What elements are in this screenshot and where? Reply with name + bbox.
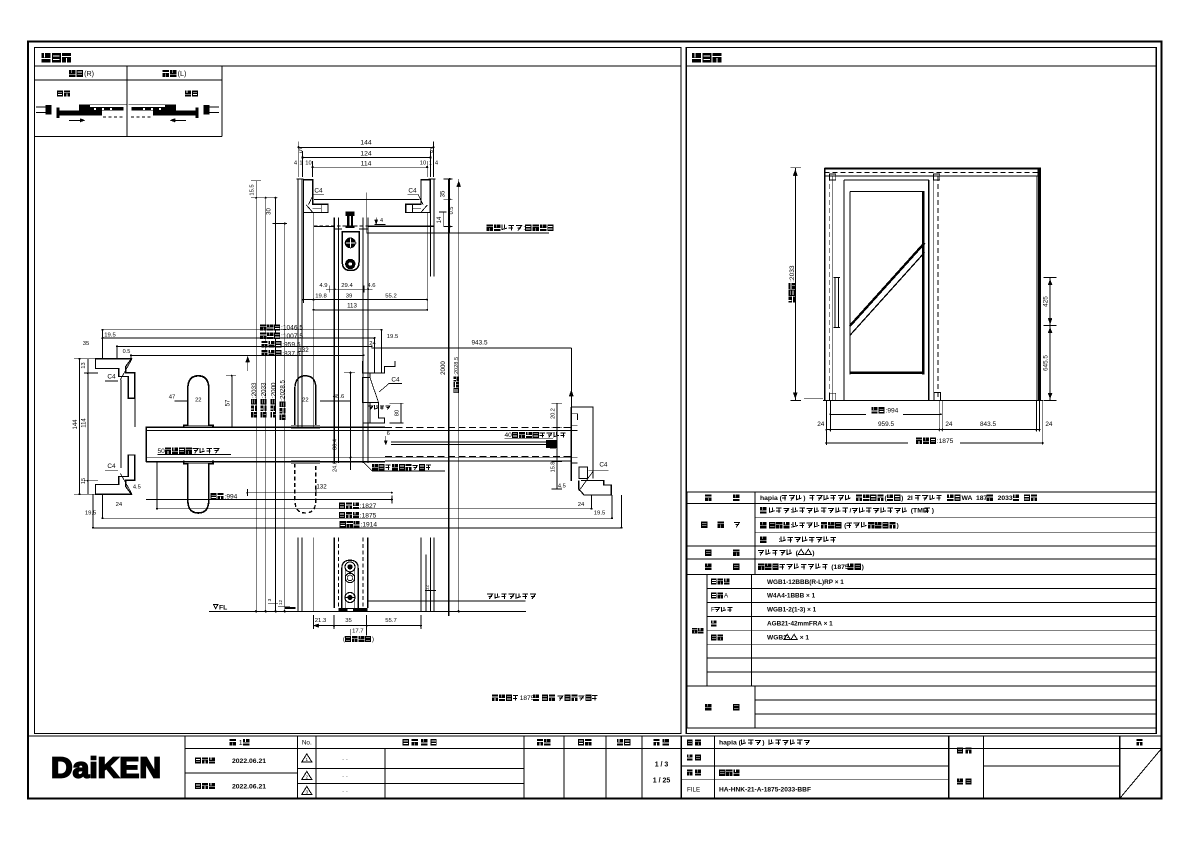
svg-text:50: 50 [158,448,166,455]
svg-text:12: 12 [278,600,284,606]
right rotated dims (head) [449,179,451,233]
svg-text:132: 132 [298,347,309,354]
elev floor line [823,399,1043,401]
svg-text:): ) [862,564,864,571]
rotated height labels [251,382,258,418]
title danmenzu [42,53,51,62]
title shomenzu [692,53,701,62]
1st edition cell [230,739,236,746]
svg-text:4.9: 4.9 [319,283,327,289]
spec table outer [687,491,1156,493]
svg-text:C4: C4 [314,188,323,195]
flat rail leader [368,600,526,602]
svg-text:35: 35 [345,618,352,624]
wall lines left [297,179,299,427]
right dims 425 / 645.5 [1049,278,1051,401]
svg-text::1007.5: :1007.5 [281,333,303,340]
svg-text:24: 24 [369,341,376,347]
svg-text:15.8: 15.8 [550,462,556,473]
svg-text:35: 35 [441,190,447,197]
svg-text:): ) [812,550,814,557]
title row line left [35,65,682,67]
bottom dim ext lines [825,400,827,431]
svg-text:(1875: (1875 [829,564,848,571]
svg-text:22: 22 [195,398,201,404]
diagonal design lines [850,243,925,326]
svg-text:1 / 25: 1 / 25 [653,778,671,785]
svg-text:· ·: · · [342,756,348,763]
svg-text:19.5: 19.5 [387,334,399,340]
svg-text::: : [767,537,781,544]
hanger stem [347,216,349,226]
svg-text:0.5: 0.5 [123,349,131,355]
svg-text:35: 35 [83,341,90,347]
spec label col line [754,492,756,574]
hinban sub-table [706,574,708,686]
chamfer diag left jamb [121,359,132,379]
roller bolt lower [346,259,355,268]
svg-text:114: 114 [361,160,372,167]
svg-text:2000: 2000 [440,361,447,375]
svg-text:hapia (: hapia ( [719,740,742,747]
svg-text:No.: No. [302,740,312,747]
svg-text:(L): (L) [178,69,187,78]
svg-text::: : [791,522,793,529]
svg-text:55.2: 55.2 [385,293,396,299]
svg-text:) 2I: ) 2I [901,495,913,502]
svg-text:425: 425 [1043,296,1050,307]
door bars (mid) [146,426,385,428]
svg-text:C4: C4 [391,376,400,383]
svg-text:2: 2 [306,775,309,780]
svg-text:843.5: 843.5 [980,421,996,428]
svg-text:40: 40 [505,432,513,439]
bikou rows [755,699,1156,701]
svg-text:· ·: · · [342,773,348,780]
svg-text:55.7: 55.7 [385,618,396,624]
gap arrow small [375,224,386,226]
svg-text:WGB1-2(1-3) × 1: WGB1-2(1-3) × 1 [767,607,817,614]
mid dim ext verticals [102,330,104,359]
svg-text:WGB1-12BBB(R-L)RP × 1: WGB1-12BBB(R-L)RP × 1 [767,579,844,586]
svg-text:30: 30 [266,208,272,215]
note dashed meaning [372,464,378,470]
svg-text:3: 3 [306,790,309,795]
left panel border [35,48,682,734]
svg-text:/: / [850,508,852,515]
svg-text:): ) [372,636,374,643]
ext lines bottom mid [92,494,94,528]
note bottom [492,695,498,701]
head jamb right [406,180,431,213]
dim wakugaiaba 1875 [916,438,922,444]
994 dim [211,493,217,499]
corner squares [830,174,836,180]
svg-text:· ·: · · [342,788,348,795]
svg-text:4.6: 4.6 [367,283,376,289]
left dim height [794,168,796,401]
spec labels [705,495,711,502]
door mid cap double line [391,441,555,443]
elev frame right band [1035,176,1037,400]
elev frame left band [824,168,826,401]
left jamb (mid) spine lines [120,380,122,468]
svg-text:57: 57 [225,399,231,406]
svg-text::2033: :2033 [251,382,258,398]
left vertical dims (mid) [79,359,81,495]
svg-text:C4: C4 [107,463,116,470]
svg-text:C4: C4 [408,188,417,195]
title row line right [686,65,1156,67]
grip omega bottom-mid (dashed) [295,464,316,513]
svg-text:4.5: 4.5 [133,485,141,491]
svg-text:24: 24 [945,421,953,428]
leader tsurisha rail [367,232,549,234]
arrow up to 837 line [247,355,249,371]
head jamb left [303,180,328,213]
guide bottom black bar [339,608,368,612]
grip omega bottom-left [184,461,213,513]
svg-text:(: ( [842,522,847,529]
svg-text::2028.5: :2028.5 [280,379,287,400]
svg-text:4: 4 [380,218,383,224]
title block top line [28,735,1162,737]
svg-text:AGB21-42mmFRA × 1: AGB21-42mmFRA × 1 [767,621,833,628]
svg-text:3: 3 [267,598,273,601]
svg-text:10: 10 [420,160,426,166]
hanger body [342,232,359,271]
right jamb door-end hatch [550,440,556,449]
svg-text:10: 10 [305,160,311,166]
left rotated dims (head) [255,181,257,612]
svg-text:29.4: 29.4 [341,283,353,289]
svg-text:17.7: 17.7 [352,628,363,634]
svg-text:124: 124 [360,151,372,158]
nakahoudate (pocket stile) [362,361,395,373]
svg-text:hapia (: hapia ( [760,495,783,502]
svg-text:FILE: FILE [687,787,700,794]
svg-text:): ) [762,740,768,747]
mini wall/door plan [210,106,220,108]
header hidaribiki [163,70,170,77]
svg-text::: : [791,508,793,515]
svg-text:959.5: 959.5 [878,421,894,428]
svg-text:WGB1-: WGB1- [767,635,789,642]
left jamb (mid) upper arm [96,359,135,399]
tall dim lines [265,198,267,612]
handle bar [835,278,839,328]
svg-text:4.5: 4.5 [558,483,566,489]
svg-text:1: 1 [306,757,309,762]
shukushaku [653,739,659,746]
svg-text:24.6: 24.6 [333,461,339,472]
door end left cap [145,427,147,462]
svg-text:144: 144 [360,139,372,146]
guide circle 3 [345,593,355,603]
pocket dashed line [933,176,935,400]
FL line [209,611,526,613]
soffit lines [314,198,420,200]
mini glyphs [185,91,191,97]
door panel [843,180,845,401]
svg-text:2022.06.21: 2022.06.21 [232,758,266,765]
right jamb foot [579,467,588,479]
svg-text:15: 15 [81,478,87,484]
svg-text::2033: :2033 [261,382,268,398]
svg-text:943.5: 943.5 [472,340,488,347]
svg-text:1: 1 [299,160,302,166]
svg-text:24: 24 [817,421,825,428]
glass panel [850,190,925,192]
dim 80 [400,403,402,423]
svg-text:19.5: 19.5 [594,511,606,517]
svg-text:24: 24 [578,502,585,508]
latch black mark [546,440,557,448]
centerline [366,193,368,234]
FL label [214,605,218,609]
hinban rows [711,579,717,585]
right panel border [686,48,1156,734]
svg-text:DaiKEN: DaiKEN [51,753,161,785]
svg-text:1: 1 [429,160,432,166]
page col [1136,739,1142,746]
svg-text:15.5: 15.5 [250,184,256,195]
svg-text:144: 144 [73,419,79,430]
header migibiki [69,70,76,77]
svg-text::1875: :1875 [937,438,954,445]
svg-text:(: ( [794,550,799,557]
svg-text:C4: C4 [107,374,116,381]
svg-text:22: 22 [302,398,308,404]
svg-text:W4A4-1BBB × 1: W4A4-1BBB × 1 [767,593,816,600]
stile vertical [312,212,314,427]
svg-text:47: 47 [169,394,176,400]
svg-text:FL: FL [219,605,227,612]
svg-text::2000: :2000 [270,382,277,398]
stopper label [369,406,373,410]
svg-text:6: 6 [387,431,390,437]
guide circle 2 [345,573,354,582]
spec row lines [687,502,1156,504]
title block col lines [184,736,186,799]
svg-text:): ) [932,508,934,515]
svg-text:39: 39 [346,293,353,299]
mid top dim rows [260,324,266,330]
direction table lines [126,66,128,137]
grip dim 57 [231,376,233,428]
mini wall/door plan [36,106,46,108]
svg-text:1 / 3: 1 / 3 [655,762,669,769]
svg-text:C4: C4 [599,462,608,469]
svg-text:48.6: 48.6 [333,394,345,400]
hanger top plate [346,226,355,229]
svg-text:86.4: 86.4 [333,439,339,450]
svg-text:24: 24 [1045,421,1053,428]
svg-text:(R): (R) [84,69,94,78]
svg-text:2033: 2033 [994,495,1013,502]
door face verticals [333,218,335,463]
svg-text:24: 24 [116,502,123,508]
rotated 20.2 / 15.8 [556,403,558,489]
hanger rail tab [346,211,355,216]
svg-text:): ) [897,522,899,529]
svg-text::1046.5: :1046.5 [281,325,303,332]
mini glyphs [57,91,63,97]
roller bolt upper [345,238,355,248]
grip omega top-mid (dashed) [295,376,316,425]
svg-text:20.2: 20.2 [550,408,556,419]
dim line 48.6 vertical [350,373,352,470]
name rows [681,748,1156,750]
svg-text:F: F [711,607,715,614]
svg-text:19.5: 19.5 [85,511,97,517]
svg-text:14: 14 [437,216,443,223]
943.5 vertical + arrow [570,348,572,407]
svg-text:12: 12 [425,585,431,591]
svg-text:80: 80 [394,410,400,416]
dim tobira 994 [872,407,878,413]
grip omega top-left [184,376,213,428]
svg-text::994: :994 [886,408,899,415]
svg-text:13: 13 [81,362,87,368]
svg-text:HA-HNK-21-A-1875-2033-BBF: HA-HNK-21-A-1875-2033-BBF [719,787,811,794]
svg-text:): ) [803,495,809,502]
svg-text::: : [523,225,525,232]
right jamb (mid) body [571,407,593,479]
right wall verticals bottom [420,537,422,611]
thick vert right of mid [448,179,450,616]
svg-text:1875: 1875 [520,695,535,702]
floor guide assembly [342,560,358,608]
svg-text:21.3: 21.3 [315,618,327,624]
svg-text:0.5: 0.5 [449,207,455,215]
shonin kakunin sakusei [537,739,543,746]
svg-text:114: 114 [82,418,88,428]
svg-text:19.8: 19.8 [315,293,327,299]
svg-text:× 1: × 1 [798,635,810,642]
elev frame top band [825,168,1042,170]
small step left of floor [285,607,295,609]
kaitei rireki [402,739,408,746]
left jamb lower arm [96,455,135,494]
svg-text:132: 132 [316,484,327,491]
page diagonal [1120,749,1162,799]
svg-text:645.5: 645.5 [1043,355,1050,371]
svg-text::2033: :2033 [789,265,796,282]
chamfer diag lower [121,474,132,494]
svg-text:113: 113 [347,302,357,309]
wall lines right (top section) [429,179,431,276]
svg-text:2022.06.21: 2022.06.21 [232,784,266,791]
guide circle 1 [345,562,355,572]
